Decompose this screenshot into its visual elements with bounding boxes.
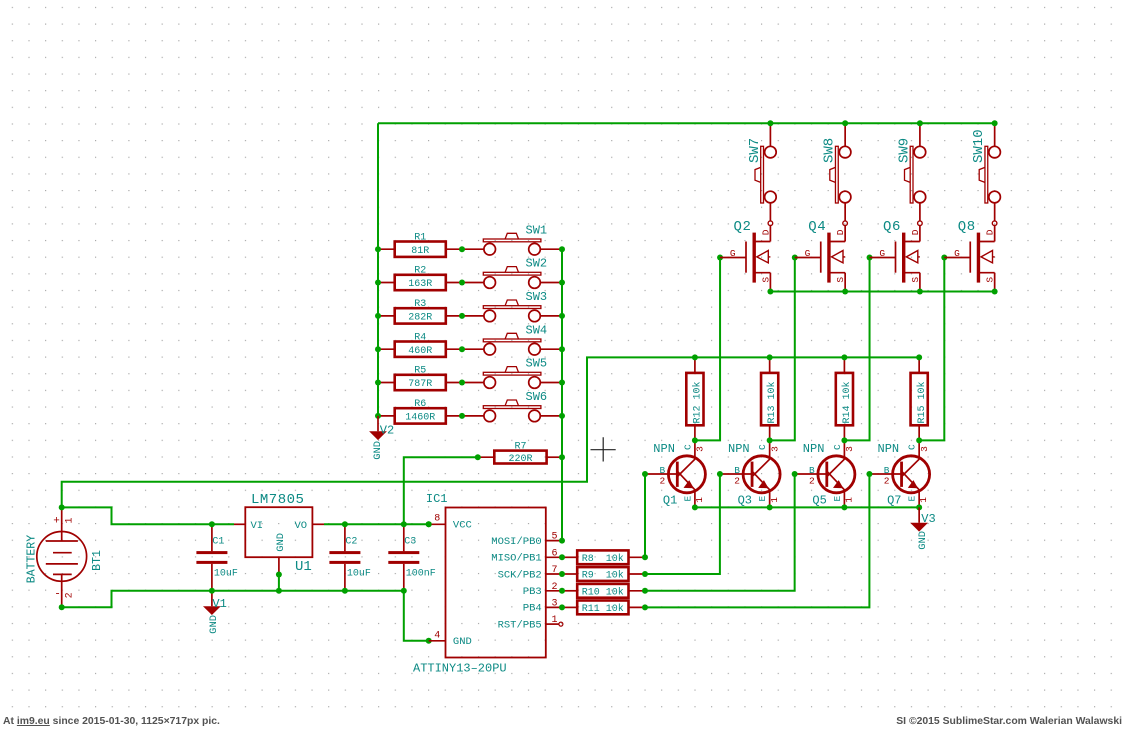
- svg-text:Q4: Q4: [808, 219, 826, 235]
- transistor Q6 MOSFET: [870, 203, 923, 291]
- svg-text:S: S: [985, 277, 996, 283]
- svg-text:3: 3: [844, 446, 855, 452]
- svg-text:Q3: Q3: [738, 494, 752, 508]
- wire left GND vertical: [377, 123, 379, 416]
- svg-text:RST/PB5: RST/PB5: [498, 619, 542, 631]
- svg-text:MOSI/PB0: MOSI/PB0: [491, 536, 541, 548]
- svg-text:460R: 460R: [408, 346, 432, 357]
- resistor R2 163R: [378, 266, 484, 291]
- resistor R15 10k: [911, 357, 928, 440]
- svg-text:SW6: SW6: [526, 390, 548, 404]
- cursor crosshair: [591, 437, 616, 461]
- svg-text:Q1: Q1: [663, 494, 677, 508]
- svg-text:3: 3: [695, 446, 706, 452]
- svg-text:R1: R1: [414, 232, 426, 243]
- battery BT1: [25, 507, 104, 607]
- svg-text:Q6: Q6: [883, 219, 901, 235]
- svg-text:BATTERY: BATTERY: [25, 535, 38, 583]
- junction dot pin5: [559, 538, 565, 544]
- svg-text:C: C: [832, 444, 843, 450]
- svg-text:3: 3: [769, 446, 780, 452]
- junction dots SW7 column: [767, 120, 773, 126]
- wire Q5 collector to Q6 gate: [844, 258, 869, 441]
- junction dots SW8 column: [842, 120, 848, 126]
- junction dot Q8 gate: [941, 255, 947, 261]
- resistor R1 81R: [378, 232, 484, 257]
- svg-text:SCK/PB2: SCK/PB2: [498, 569, 542, 581]
- svg-text:2: 2: [551, 582, 557, 593]
- svg-text:R2: R2: [414, 266, 426, 277]
- svg-text:GND: GND: [275, 533, 287, 552]
- capacitor C1 10uF: [196, 524, 238, 591]
- svg-text:-: -: [54, 589, 61, 601]
- svg-text:R10 10k: R10 10k: [582, 586, 624, 598]
- svg-text:R5: R5: [414, 366, 426, 377]
- transistor Q7 NPN: [869, 440, 930, 507]
- svg-text:5: 5: [551, 532, 557, 543]
- svg-text:MISO/PB1: MISO/PB1: [491, 553, 541, 565]
- svg-text:Q7: Q7: [887, 494, 901, 508]
- transistor Q1 NPN: [645, 440, 706, 507]
- resistor R7 220R: [478, 442, 562, 465]
- svg-text:V2: V2: [380, 424, 394, 438]
- resistor R13 10k: [761, 357, 778, 440]
- svg-text:282R: 282R: [408, 313, 432, 324]
- svg-text:1: 1: [694, 497, 705, 503]
- svg-text:NPN: NPN: [803, 442, 825, 456]
- svg-text:C: C: [757, 444, 768, 450]
- svg-text:7: 7: [551, 565, 557, 576]
- svg-text:VI: VI: [251, 520, 264, 532]
- svg-text:C2: C2: [345, 537, 357, 548]
- svg-text:VO: VO: [295, 520, 308, 532]
- svg-text:V3: V3: [921, 512, 935, 526]
- regulator U1 LM7805: [234, 492, 324, 575]
- svg-text:R12 10k: R12 10k: [692, 381, 704, 423]
- svg-text:G: G: [879, 248, 885, 259]
- svg-text:B: B: [660, 465, 666, 476]
- wire R11 to Q7 base: [645, 474, 869, 607]
- wire switch-output vertical: [561, 249, 563, 540]
- svg-text:SW1: SW1: [526, 223, 548, 237]
- svg-text:ATTINY13–20PU: ATTINY13–20PU: [413, 662, 507, 676]
- svg-text:2: 2: [734, 476, 740, 487]
- junction dots R7: [475, 454, 481, 460]
- ground V1: [203, 591, 227, 634]
- wire GND rail: [62, 591, 429, 641]
- resistor R3 282R: [378, 299, 484, 324]
- svg-text:4: 4: [434, 631, 440, 642]
- wire VCC rail: [324, 523, 429, 525]
- svg-text:C: C: [682, 444, 693, 450]
- svg-text:R13 10k: R13 10k: [766, 381, 778, 423]
- svg-text:D: D: [760, 229, 771, 235]
- junction dot Q4 gate: [792, 255, 798, 261]
- svg-text:6: 6: [551, 548, 557, 559]
- svg-text:R4: R4: [414, 332, 426, 343]
- svg-text:R11 10k: R11 10k: [582, 603, 624, 615]
- svg-text:U1: U1: [295, 559, 312, 575]
- junction dots SW10 column: [992, 120, 998, 126]
- svg-text:D: D: [985, 229, 996, 235]
- junction dots GND rail: [209, 588, 215, 594]
- svg-text:SW8: SW8: [822, 138, 838, 163]
- svg-text:1: 1: [769, 497, 780, 503]
- switch SW4: [483, 323, 562, 355]
- svg-text:2: 2: [809, 476, 815, 487]
- junction dots R12-R15 top rail: [692, 354, 698, 360]
- svg-text:163R: 163R: [408, 279, 432, 290]
- svg-text:NPN: NPN: [653, 442, 675, 456]
- resistor R8 10k: [562, 550, 645, 564]
- svg-text:G: G: [805, 248, 811, 259]
- resistor R4 460R: [378, 332, 484, 357]
- transistor Q4 MOSFET: [795, 203, 848, 291]
- svg-text:1: 1: [551, 615, 557, 626]
- wire battery+ to R12-R15 rail: [62, 357, 919, 507]
- transistor Q3 NPN: [720, 440, 781, 507]
- svg-text:SW4: SW4: [526, 323, 548, 337]
- svg-text:BT1: BT1: [91, 550, 104, 571]
- junction dot Q6 gate: [867, 255, 873, 261]
- svg-text:PB4: PB4: [523, 603, 542, 615]
- svg-text:3: 3: [551, 598, 557, 609]
- ground V3: [910, 507, 936, 549]
- resistor R11 10k: [562, 601, 645, 615]
- svg-text:NPN: NPN: [878, 442, 900, 456]
- resistor R5 787R: [378, 366, 484, 391]
- capacitor C3 100nF: [388, 524, 436, 591]
- svg-text:LM7805: LM7805: [251, 492, 304, 508]
- wire R8 to Q1 base: [644, 474, 646, 557]
- junction dots R/SW rows: [375, 246, 565, 419]
- svg-text:R3: R3: [414, 299, 426, 310]
- svg-text:81R: 81R: [411, 246, 429, 257]
- svg-text:8: 8: [434, 513, 440, 524]
- capacitor C2 10uF: [329, 524, 371, 591]
- svg-text:G: G: [954, 248, 960, 259]
- wire R10 to Q5 base: [645, 474, 795, 591]
- svg-text:2: 2: [884, 476, 890, 487]
- svg-text:E: E: [757, 496, 768, 502]
- svg-text:R15 10k: R15 10k: [916, 381, 928, 423]
- svg-text:E: E: [682, 496, 693, 502]
- wire R7 to VCC: [404, 457, 478, 524]
- switch SW3: [483, 290, 562, 322]
- wire 7805 GND stub: [278, 575, 280, 591]
- IC U1 ATTINY13-20PU: [413, 492, 563, 676]
- junction dots SW9 column: [917, 120, 923, 126]
- wire Q7 collector to Q8 gate: [919, 258, 944, 441]
- switch SW1: [483, 223, 562, 255]
- svg-text:SW10: SW10: [971, 129, 987, 163]
- svg-text:E: E: [832, 496, 843, 502]
- switch SW6: [483, 390, 562, 422]
- svg-text:IC1: IC1: [426, 492, 448, 506]
- wire battery+ to VI: [62, 507, 234, 524]
- junction dot pin8: [426, 521, 432, 527]
- svg-text:SW5: SW5: [526, 357, 548, 371]
- svg-text:SW7: SW7: [747, 138, 763, 163]
- svg-text:1: 1: [918, 497, 929, 503]
- svg-text:R14 10k: R14 10k: [841, 381, 853, 423]
- switch SW7: [747, 123, 776, 203]
- wire Q1 collector to Q2 gate: [695, 258, 720, 441]
- switch SW5: [483, 357, 562, 389]
- svg-text:1460R: 1460R: [405, 413, 435, 424]
- svg-text:SW9: SW9: [896, 138, 912, 163]
- svg-text:D: D: [910, 229, 921, 235]
- junction dots R11: [559, 604, 565, 610]
- wire top GND rail: [378, 122, 995, 124]
- junction dots Q1: [692, 437, 698, 443]
- switch SW8: [822, 123, 851, 203]
- junction dots battery: [59, 504, 65, 510]
- junction dots R10: [559, 588, 565, 594]
- svg-text:1: 1: [844, 497, 855, 503]
- svg-text:Q5: Q5: [812, 494, 826, 508]
- svg-text:100nF: 100nF: [406, 568, 436, 579]
- svg-text:10uF: 10uF: [214, 568, 238, 579]
- svg-text:C: C: [907, 444, 918, 450]
- wire R9 to Q3 base: [645, 474, 720, 574]
- svg-text:R6: R6: [414, 399, 426, 410]
- svg-text:SW2: SW2: [526, 257, 548, 271]
- junction dot Q2 gate: [717, 255, 723, 261]
- svg-text:3: 3: [919, 446, 930, 452]
- svg-text:R8 10k: R8 10k: [582, 553, 624, 565]
- junction dots Q5: [841, 437, 847, 443]
- svg-text:B: B: [884, 465, 890, 476]
- svg-text:S: S: [910, 277, 921, 283]
- resistor R6 1460R: [378, 399, 484, 424]
- junction dots Q7: [916, 437, 922, 443]
- svg-text:SW3: SW3: [526, 290, 548, 304]
- resistor R12 10k: [686, 357, 703, 440]
- ground V2: [369, 416, 394, 460]
- svg-text:E: E: [907, 496, 918, 502]
- wire MOSFET source rail: [770, 291, 994, 293]
- svg-text:C3: C3: [404, 537, 416, 548]
- svg-text:V1: V1: [212, 597, 226, 611]
- svg-text:B: B: [734, 465, 740, 476]
- svg-text:2: 2: [65, 592, 76, 598]
- junction dots R9: [559, 571, 565, 577]
- wire NPN emitter rail: [695, 506, 919, 508]
- svg-text:GND: GND: [453, 636, 472, 648]
- svg-text:G: G: [730, 248, 736, 259]
- svg-text:787R: 787R: [408, 379, 432, 390]
- svg-text:R7: R7: [514, 442, 526, 453]
- svg-text:220R: 220R: [508, 454, 532, 465]
- svg-text:NPN: NPN: [728, 442, 750, 456]
- svg-text:+: +: [53, 516, 60, 528]
- junction dots VCC rail: [209, 521, 215, 527]
- resistor R14 10k: [836, 357, 853, 440]
- resistor R9 10k: [562, 567, 645, 581]
- svg-text:C1: C1: [212, 537, 224, 548]
- svg-text:Q2: Q2: [734, 219, 752, 235]
- switch SW9: [896, 123, 925, 203]
- svg-text:D: D: [835, 229, 846, 235]
- svg-text:R9 10k: R9 10k: [582, 570, 624, 582]
- svg-text:10uF: 10uF: [347, 568, 371, 579]
- svg-text:Q8: Q8: [958, 219, 976, 235]
- junction dots Q3: [767, 437, 773, 443]
- svg-text:PB3: PB3: [523, 586, 542, 598]
- wire Q3 collector to Q4 gate: [770, 258, 795, 441]
- svg-text:VCC: VCC: [453, 520, 472, 532]
- svg-text:S: S: [760, 277, 771, 283]
- resistor R10 10k: [562, 584, 645, 598]
- svg-text:S: S: [835, 277, 846, 283]
- svg-text:B: B: [809, 465, 815, 476]
- transistor Q8 MOSFET: [944, 203, 997, 291]
- switch SW2: [483, 257, 562, 289]
- junction dots R8: [559, 554, 565, 560]
- svg-text:GND: GND: [372, 441, 384, 460]
- svg-text:GND: GND: [917, 531, 929, 550]
- switch SW10: [971, 123, 1000, 203]
- svg-text:GND: GND: [208, 615, 220, 634]
- svg-text:2: 2: [660, 476, 666, 487]
- transistor Q2 MOSFET: [720, 203, 773, 291]
- svg-text:1: 1: [65, 517, 76, 523]
- transistor Q5 NPN: [795, 440, 856, 507]
